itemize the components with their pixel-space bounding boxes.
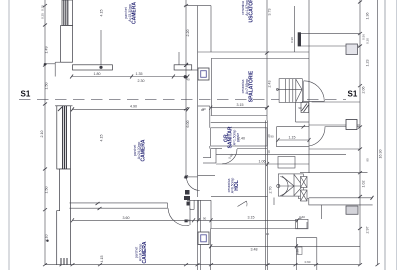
svg-text:1.49: 1.49 xyxy=(45,47,49,54)
dim 3.15 bottom xyxy=(211,218,299,228)
wall band mid (south of camera mid) xyxy=(70,202,168,204)
dim vertical x=186 xyxy=(184,0,188,178)
entry door arc right xyxy=(309,127,325,146)
L wall left xyxy=(210,149,212,158)
window in section top-left (hatched) xyxy=(62,0,73,26)
svg-text:0.60: 0.60 xyxy=(305,260,311,264)
wall strip left of bottom camera xyxy=(197,200,199,270)
svg-text:S1: S1 xyxy=(21,90,31,99)
svg-text:4.15: 4.15 xyxy=(100,135,104,142)
svg-text:2.10: 2.10 xyxy=(40,131,44,138)
steps outline right of stairs xyxy=(298,196,321,219)
svg-text:90: 90 xyxy=(366,158,370,162)
interior wall x=267 double xyxy=(265,120,267,270)
svg-text:USCATORIE: USCATORIE xyxy=(249,0,255,22)
svg-text:1.36: 1.36 xyxy=(366,13,370,20)
door leaf diagonal at HOL south xyxy=(238,201,247,207)
dim row 1.80 / 1.35 / 2.30 xyxy=(70,75,189,79)
svg-text:S1: S1 xyxy=(348,90,358,99)
micro label 0.90 window xyxy=(290,37,294,43)
fixtures right wall xyxy=(301,177,308,188)
dim 1.15 xyxy=(277,138,311,142)
wall pier left xyxy=(61,26,73,63)
svg-text:A=1.87mp: A=1.87mp xyxy=(245,0,249,16)
svg-text:10: 10 xyxy=(267,150,271,154)
wall footing hatch bottom-left xyxy=(61,258,67,265)
svg-text:4.90: 4.90 xyxy=(130,105,137,109)
svg-text:2.43: 2.43 xyxy=(268,81,272,88)
dimension chain horizontal bottom y=264.7 xyxy=(45,263,360,266)
svg-text:parchet: parchet xyxy=(135,247,139,258)
interior wall double below xyxy=(211,148,222,150)
dimension chain vertical left x=45 xyxy=(43,0,49,266)
svg-text:90: 90 xyxy=(270,135,274,139)
svg-text:3.15: 3.15 xyxy=(248,216,255,220)
svg-text:ceramica: ceramica xyxy=(241,1,245,15)
top wall line xyxy=(185,5,212,7)
window lines right xyxy=(301,33,360,35)
svg-text:3.60: 3.60 xyxy=(123,216,130,220)
grey box column GB2 xyxy=(346,206,358,214)
svg-text:parchet: parchet xyxy=(124,7,128,18)
wall band above xyxy=(211,115,267,117)
svg-text:HOL: HOL xyxy=(234,180,240,191)
top wall line xyxy=(211,228,307,230)
svg-text:1.35: 1.35 xyxy=(136,72,143,76)
S1 section labels xyxy=(21,90,358,99)
svg-text:2.70: 2.70 xyxy=(269,187,273,194)
white box column WB xyxy=(346,120,357,130)
svg-text:90: 90 xyxy=(298,106,302,110)
svg-text:A=24.00mp: A=24.00mp xyxy=(137,142,141,160)
svg-text:1.15: 1.15 xyxy=(289,136,296,140)
svg-text:CAMERA: CAMERA xyxy=(132,2,138,24)
dim 3.15 xyxy=(209,106,268,110)
section line S1 (dash-dot) xyxy=(19,99,346,101)
svg-text:0.90: 0.90 xyxy=(290,37,294,43)
page frame right border inner xyxy=(384,0,386,270)
bathroom bottom right xyxy=(296,238,316,270)
svg-text:CAMERA: CAMERA xyxy=(142,241,148,263)
extension line B xyxy=(178,52,180,65)
svg-text:1.80: 1.80 xyxy=(94,72,101,76)
dim 3.48 xyxy=(209,244,360,248)
right dim labels xyxy=(362,13,370,234)
labels above sanitar right xyxy=(238,135,274,141)
lintel bar B xyxy=(174,65,192,70)
dim 3.60 xyxy=(71,218,213,222)
svg-text:parchet: parchet xyxy=(133,145,137,156)
extension line A xyxy=(100,30,102,65)
dimension line vertical overall x=377.5 xyxy=(376,0,380,266)
left dim labels xyxy=(40,5,48,242)
door arc D4 xyxy=(187,178,200,191)
svg-text:0.25: 0.25 xyxy=(41,13,45,19)
closet box xyxy=(278,157,295,169)
svg-text:ceramica: ceramica xyxy=(241,80,245,94)
wall line right mid xyxy=(309,153,346,155)
door D2 arc xyxy=(168,208,189,226)
wall line x=294.7 xyxy=(294,6,296,52)
svg-text:10: 10 xyxy=(266,232,270,236)
HOL south wall xyxy=(211,195,268,197)
dimension chain vertical right x=360 xyxy=(358,0,362,266)
svg-text:4.15: 4.15 xyxy=(100,256,104,263)
svg-text:0.35: 0.35 xyxy=(41,5,45,11)
svg-text:ceramica: ceramica xyxy=(227,179,231,193)
wall line y102 to dim xyxy=(312,101,360,103)
svg-text:3.15: 3.15 xyxy=(237,103,244,107)
svg-text:3.73: 3.73 xyxy=(268,9,272,16)
wall band under camera top xyxy=(198,51,310,53)
svg-text:3.48: 3.48 xyxy=(251,248,258,252)
door arc sanitar xyxy=(222,149,237,164)
dark pillar xyxy=(298,32,301,46)
svg-text:CAMERA: CAMERA xyxy=(141,139,147,161)
svg-text:2.20: 2.20 xyxy=(186,30,190,37)
lintel bar A xyxy=(73,65,113,70)
dim 1.06 xyxy=(216,162,309,166)
svg-text:90: 90 xyxy=(201,108,205,112)
dark posts door xyxy=(185,190,190,195)
dim vertical x=267 top xyxy=(265,0,269,120)
svg-text:2.97: 2.97 xyxy=(366,227,370,234)
interior height labels x=102 xyxy=(100,10,105,263)
svg-text:2.30: 2.30 xyxy=(138,79,145,83)
wall hatch piece right entry xyxy=(301,103,309,113)
page frame left border xyxy=(8,0,10,270)
wall edge right of camera mid xyxy=(197,176,199,197)
grey box column GB1 xyxy=(346,44,358,55)
svg-text:16.30: 16.30 xyxy=(379,150,383,159)
svg-text:1.02: 1.02 xyxy=(362,181,366,188)
svg-text:2.10: 2.10 xyxy=(45,235,49,242)
svg-text:SPALATORIE: SPALATORIE xyxy=(249,70,255,102)
svg-text:1.20: 1.20 xyxy=(296,249,300,255)
svg-text:90: 90 xyxy=(203,217,207,221)
landing side wall xyxy=(273,198,275,206)
corridor strip walls xyxy=(209,106,211,128)
svg-text:1.06: 1.06 xyxy=(259,160,266,164)
svg-text:A=7.65mp: A=7.65mp xyxy=(245,79,249,95)
small wc box xyxy=(296,219,308,229)
landing line xyxy=(302,100,324,102)
svg-text:gresie: gresie xyxy=(236,133,240,142)
column marker CS2 xyxy=(198,232,209,245)
svg-text:1.50: 1.50 xyxy=(45,83,49,90)
column marker CS1 xyxy=(198,68,209,80)
shaft wall verticals xyxy=(197,6,199,176)
svg-text:1.50: 1.50 xyxy=(45,187,49,194)
svg-text:40: 40 xyxy=(186,78,190,82)
svg-text:6.00: 6.00 xyxy=(186,121,190,128)
svg-text:0.20: 0.20 xyxy=(366,38,370,44)
hatched wall mid-left xyxy=(55,106,73,169)
shaft south of HOL xyxy=(187,200,211,228)
door arc at stairs right xyxy=(304,81,325,102)
page frame right border outer xyxy=(396,0,398,270)
right exterior wall xyxy=(308,0,310,173)
svg-text:2.06: 2.06 xyxy=(362,87,366,94)
svg-text:A=6.50mp: A=6.50mp xyxy=(231,178,235,194)
svg-text:4.15: 4.15 xyxy=(100,10,104,17)
dim 4.90 xyxy=(71,107,189,111)
wall ledge line xyxy=(45,63,55,65)
svg-text:A=15.30mp: A=15.30mp xyxy=(128,4,132,22)
room box xyxy=(211,128,267,146)
svg-text:A=18.50mp: A=18.50mp xyxy=(139,244,143,262)
small dim 90 below stairs xyxy=(295,102,297,122)
wall pier lower-left xyxy=(57,169,71,265)
svg-text:1.23: 1.23 xyxy=(366,60,370,67)
axis knot at bar B / dim junction xyxy=(184,75,187,78)
svg-text:40: 40 xyxy=(299,217,303,221)
